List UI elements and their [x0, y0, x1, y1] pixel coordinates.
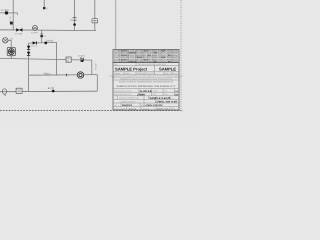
svg-text:DWGL FOR R00: DWGL FOR R00: [146, 104, 163, 107]
svg-text:DRAWN: DRAWN: [114, 72, 121, 75]
svg-text:DRAWN DATE 9-30-16: DRAWN DATE 9-30-16: [114, 90, 132, 93]
fan motor B1 box: [7, 48, 15, 56]
diode D3 on branch x28.6: [27, 52, 30, 56]
svg-text:E3-09: E3-09: [121, 58, 127, 61]
svg-text:REV 0: REV 0: [172, 72, 177, 75]
sheet border dotted bottom y110.6: [0, 110, 183, 112]
wire terminal bus y75: [29, 74, 98, 77]
svg-text:SAMPLE: SAMPLE: [159, 67, 176, 72]
svg-text:CHKD: CHKD: [125, 72, 131, 75]
svg-text:SAMPLE PROJ 63: SAMPLE PROJ 63: [120, 100, 135, 103]
svg-text:4-07 A: 4-07 A: [94, 64, 97, 71]
svg-text:CHECKED DATE 9-30: CHECKED DATE 9-30: [114, 93, 131, 96]
relay coil CR1 box: [66, 57, 71, 62]
wire L1 feeder top-left: [0, 13, 17, 15]
wire lower bus y59: [0, 58, 92, 60]
svg-text:APVD: APVD: [153, 90, 158, 93]
svg-text:SCALE NONE: SCALE NONE: [114, 107, 126, 110]
svg-text:1F-03B: 1F-03B: [15, 32, 23, 35]
svg-text:SAMPLE COMPANY DIV: SAMPLE COMPANY DIV: [119, 97, 140, 100]
wire stub riser x44.2: [43, 0, 45, 7]
svg-text:SAMPLE S.63.PL: SAMPLE S.63.PL: [150, 97, 172, 100]
svg-text:TB1-4: TB1-4: [44, 72, 51, 75]
svg-text:SHT: SHT: [153, 93, 156, 96]
svg-text:DWG. NO 9.99: DWG. NO 9.99: [157, 101, 178, 104]
svg-text:D-SC1: D-SC1: [78, 54, 85, 57]
junction dot on L1 feeder: [5, 11, 8, 14]
svg-text:9-30-16: 9-30-16: [140, 90, 152, 93]
fuse F4 on stub x44.2: [43, 7, 45, 9]
svg-text:SAMPLE COMPANY INCORPORATED 12: SAMPLE COMPANY INCORPORATED 1234 SOMEWHE…: [119, 81, 174, 84]
svg-text:C1-07: C1-07: [121, 54, 127, 57]
svg-text:28x40 PL: 28x40 PL: [122, 104, 133, 107]
svg-text:SHEET 1 OF 1: SHEET 1 OF 1: [157, 108, 170, 111]
meter M1 box on riser x94.8: [92, 19, 98, 23]
wire main bus y30: [0, 29, 96, 32]
pilot light PL2 double circle: [77, 72, 83, 78]
fuse F3 on bottom bus: [2, 89, 6, 94]
svg-text:004-X: 004-X: [137, 56, 143, 59]
svg-text:R0: R0: [173, 107, 175, 110]
sheet border dotted right x181: [180, 0, 182, 111]
wire control line y42.8: [29, 41, 57, 44]
wire vertical x56.6: [56, 42, 58, 75]
svg-text:SAMPLE Project: SAMPLE Project: [115, 67, 148, 72]
terminal tick on bus y75: [65, 74, 68, 77]
diode D2 on branch x28.6: [27, 46, 30, 50]
svg-text:J-9999: J-9999: [137, 93, 145, 96]
fuse F1 on riser x13.2: [10, 22, 13, 25]
wire diode branch x28.6: [28, 43, 30, 92]
disconnect switch S1 on riser x74.6: [73, 18, 77, 21]
wire bottom bus y91.4: [0, 90, 97, 93]
svg-text:SAMPLE ROOCE ENGNERNG 1OM SORE: SAMPLE ROOCE ENGNERNG 1OM SOREN CITY: [117, 85, 177, 88]
title block: [109, 63, 184, 111]
wire corner x91.8: [91, 60, 93, 75]
junction node A: [44, 42, 47, 45]
wire B1 lead: [10, 56, 12, 59]
sheet divider line x116: [115, 0, 117, 50]
svg-text:APPR DATE: APPR DATE: [156, 63, 167, 66]
svg-text:4-M13: 4-M13: [47, 39, 54, 42]
svg-text:09-30-16: 09-30-16: [129, 108, 137, 111]
svg-text:240VAC: 240VAC: [31, 44, 39, 47]
wire branch riser x74.6: [74, 0, 76, 31]
svg-text:FILE 63: FILE 63: [143, 107, 149, 110]
svg-text:A1: A1: [67, 60, 69, 63]
svg-text:APPRV: APPRV: [137, 72, 144, 75]
pilot lamp PL1: [3, 38, 8, 43]
terminal box TB2: [16, 88, 22, 93]
wire branch riser x94.8: [94, 0, 96, 31]
svg-text:SMP: SMP: [161, 56, 166, 59]
svg-text:A1-03: A1-03: [121, 50, 127, 53]
svg-text:9-30: 9-30: [164, 90, 167, 93]
svg-text:SMP-02: SMP-02: [129, 52, 137, 55]
svg-text:SZ: SZ: [115, 104, 117, 107]
current transformer CT1 above bus: [33, 26, 38, 31]
wire vertical riser x13.2: [12, 0, 14, 30]
surge arrester RV1 on bus y30: [16, 28, 19, 31]
svg-text:B-170: B-170: [48, 87, 55, 90]
wire riser x41.7: [41, 30, 43, 43]
SCR Q1 on lower bus: [81, 58, 84, 62]
wire right drop x97.3: [96, 75, 98, 92]
svg-text:CT-PR: CT-PR: [31, 32, 38, 35]
svg-text:REV DESCRIPTION: REV DESCRIPTION: [138, 63, 155, 66]
svg-text:L1-3PH: L1-3PH: [1, 9, 9, 12]
svg-text:SMP: SMP: [161, 50, 166, 53]
diode D1 on control line: [33, 41, 37, 44]
junction node B: [52, 90, 55, 93]
fuse F2 on riser x41.7: [40, 35, 43, 37]
parts list table: [113, 50, 179, 64]
svg-text:SCALE NTS: SCALE NTS: [145, 72, 155, 75]
svg-text:ER: ER: [175, 93, 178, 96]
